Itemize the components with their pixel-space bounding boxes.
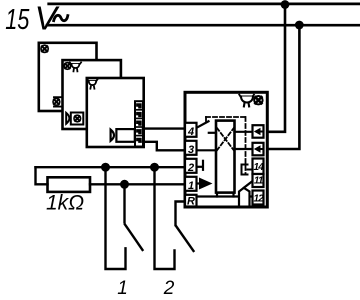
IC internal amp triangle at pin 1 <box>199 178 213 190</box>
svg-text:3: 3 <box>188 144 194 156</box>
module A3 bell symbol (outline) <box>87 79 97 88</box>
IC internal center block <box>216 121 235 193</box>
node dot on second rail <box>295 21 304 30</box>
svg-text:14: 14 <box>254 162 265 173</box>
IC internal contact at pin 2 <box>197 166 203 168</box>
IC internal wire pin3 to block <box>197 149 217 151</box>
IC internal wire block to input 1 <box>235 131 253 133</box>
wire resistor output to IC pin 1 <box>90 183 186 185</box>
switch SB1 blade <box>125 225 143 251</box>
node dot switch 1 top <box>101 163 110 172</box>
IC internal dashed control box <box>206 117 246 175</box>
IC internal switch at pin 4 <box>197 121 209 128</box>
module A2 lamp symbol <box>64 63 71 70</box>
switch SB2 middle leg from pin R <box>176 202 186 226</box>
module A1 lamp symbol <box>41 45 48 52</box>
svg-text:1: 1 <box>188 180 194 192</box>
AC tilde symbol <box>54 15 68 20</box>
node dot on top rail <box>281 0 290 9</box>
switch SB1 middle leg <box>123 184 125 222</box>
module A1 buzzer box bottom (partly hidden) <box>53 97 63 106</box>
svg-text:2: 2 <box>163 278 175 299</box>
svg-text:15: 15 <box>5 4 30 36</box>
IC internal wire block to input 2 <box>235 148 253 150</box>
label 15 V~ <box>5 0 59 37</box>
svg-text:1: 1 <box>117 278 128 299</box>
input arrow 2 <box>254 145 261 152</box>
IC lamp symbol (filled) <box>254 96 262 104</box>
node dot switch 1 middle <box>120 180 129 189</box>
svg-text:R: R <box>187 195 195 207</box>
module A2 box <box>63 60 121 129</box>
svg-text:11: 11 <box>254 176 264 187</box>
power rail second <box>47 24 360 27</box>
svg-text:12: 12 <box>254 193 265 204</box>
svg-text:2: 2 <box>187 162 194 174</box>
switch SB1 left leg <box>106 167 126 269</box>
module A1 box <box>39 43 97 111</box>
wire top rail drop to IC input 1 <box>264 4 286 132</box>
wire resistor left riser <box>36 167 48 184</box>
svg-text:V: V <box>35 0 60 37</box>
switch SB2 blade <box>176 226 194 251</box>
wire bypass top to IC pin 2 <box>36 166 186 168</box>
svg-text:1kΩ: 1kΩ <box>46 192 84 215</box>
power rail top <box>49 3 360 6</box>
IC internal bottom bus R to 12 <box>197 195 253 197</box>
wire module A3 to IC pin 4 <box>143 127 186 129</box>
wire module A3 to IC pin 3 <box>143 142 186 151</box>
module A2 buzzer symbol bottom <box>66 113 83 125</box>
IC U1 outer box <box>185 92 267 207</box>
IC internal dashed X <box>217 128 234 150</box>
wire second rail drop to IC input 2 <box>264 25 300 149</box>
IC left pin boxes <box>185 123 197 208</box>
module A3 box <box>87 78 144 147</box>
svg-text:4: 4 <box>187 126 194 138</box>
module A3 pin connector column <box>135 101 143 146</box>
node dot switch 2 top <box>150 163 159 172</box>
module A3 sounder symbol <box>111 129 135 142</box>
module A2 bell symbol (filled) <box>70 62 81 71</box>
IC right pin boxes <box>253 125 265 204</box>
IC bell symbol (outline) <box>239 95 254 107</box>
input arrow 1 <box>254 128 261 135</box>
IC internal relay contact at pin 11 <box>239 188 250 205</box>
switch SB2 left leg <box>155 167 175 269</box>
resistor R1 body <box>48 177 91 192</box>
IC internal contact box at pin 14 <box>242 165 248 175</box>
